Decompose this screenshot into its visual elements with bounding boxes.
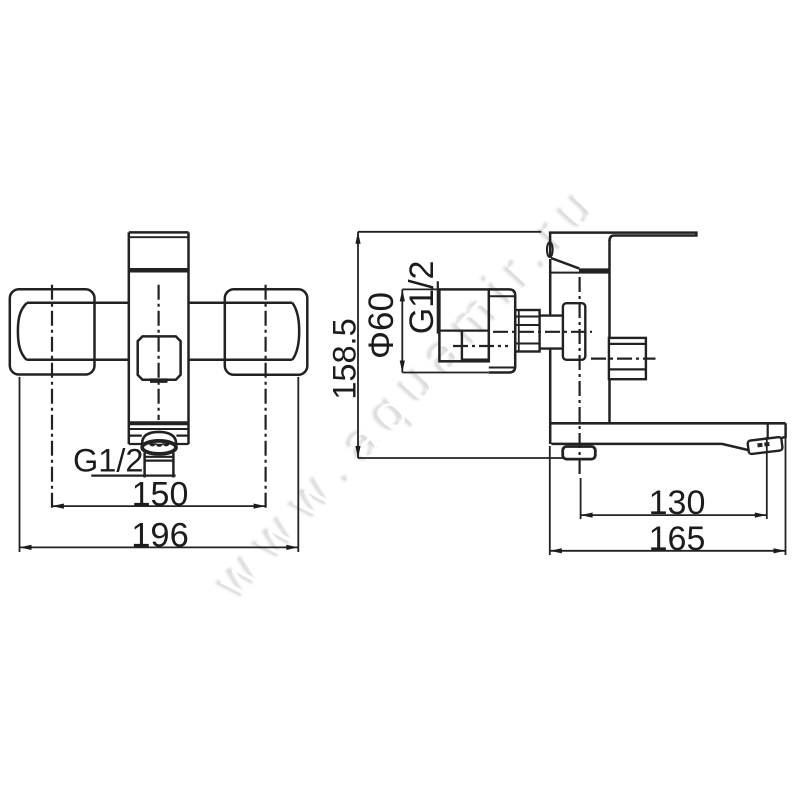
body column [129,232,189,444]
dim 158.5 line [357,232,359,458]
cap lower line side [550,272,609,274]
spout side bottom [551,444,749,451]
spout step line 3 (interrupted by aerator) [129,443,189,445]
svg-text:www.: www. [206,432,377,611]
svg-text:150: 150 [132,475,189,513]
dim phi60 top ext [402,288,439,290]
centerline right flange [265,285,267,510]
dim 165 line [550,550,786,552]
wall union fitting [609,338,646,379]
cap inner line [129,236,189,238]
hex nut [515,310,539,352]
aerator ring [142,441,176,454]
left wall flange [10,289,95,374]
dim 130 left ext [580,478,582,519]
strip inner lines [489,296,515,367]
arrows 158.5 [355,232,360,244]
back strip [489,289,515,372]
svg-text:158.5: 158.5 [327,318,363,399]
dim 158.5 bottom ext [358,457,564,459]
svg-text:165: 165 [649,520,706,558]
cap thick line side [579,268,610,272]
G1/2 side underline leader [437,281,439,333]
centerline port [493,331,592,333]
watermark www.aquamir.ru [200,168,615,613]
nut chamfer [518,310,520,352]
dim 130 line [581,514,767,516]
body side right edge [608,240,611,423]
dim phi60 bottom ext [402,372,489,374]
escutcheon inner line [439,330,488,332]
svg-text:Φ60: Φ60 [362,292,401,359]
svg-text:G1/2: G1/2 [403,261,441,335]
dim 196 ext left [19,377,21,552]
aerator side [747,437,782,455]
dim 196 ext right [297,377,299,552]
lever left oval [547,242,553,257]
set screw bump [563,447,596,460]
stub shoulder [145,457,174,461]
fitting inner lines [609,344,646,370]
lever [550,233,696,257]
body side left edge [549,259,552,444]
svg-text:196: 196 [131,517,189,555]
centerline body side [578,277,580,478]
svg-text:130: 130 [649,484,706,522]
inner cartridge rect [461,331,463,362]
escutcheon square [439,289,488,361]
arrows 165 [550,548,562,553]
inner cartridge bottom [462,359,489,362]
arrows 150 [52,504,64,509]
cap thick bottom [129,268,189,273]
arrows group [20,232,786,554]
centerline fitting [591,358,656,360]
centerline cartridge [453,345,508,347]
dim 165 right ext [785,437,787,555]
supply tube top line [27,302,292,305]
spout tip edge [781,423,786,438]
svg-text:G1/2: G1/2 [73,442,143,478]
shower stub [145,453,174,478]
G1/2 leader front [91,475,175,477]
spout end cap line [767,423,769,439]
left tube end cap [18,303,27,360]
dim 158.5 top ext [358,231,541,233]
arrows phi60 [400,289,405,301]
spout side top [550,422,785,425]
body bottom thick line [129,421,189,425]
supply tube bottom line [27,359,293,362]
dim 196 line [20,546,299,548]
arrows 196 [20,545,32,550]
body flange boss [563,303,585,360]
dim phi60 line [401,289,403,372]
aerator upper rim [142,432,176,444]
right wall flange [225,289,307,375]
right tube end cap [292,303,299,360]
lever underside diagonal [551,258,579,269]
spout step line 1 [129,428,189,430]
dim 130 right ext [766,437,768,519]
spout step line 2 [129,435,189,437]
centerline left flange [51,285,53,510]
centerline body front [158,285,160,420]
arrows 130 [581,513,593,518]
dim 165 left ext [549,446,551,555]
nut facets [515,317,539,344]
handle square front [138,336,181,379]
aerator mesh [149,444,169,447]
handle shadow [150,378,168,383]
neck [540,316,563,349]
cap top [129,231,189,234]
dim 150 line [52,505,266,507]
